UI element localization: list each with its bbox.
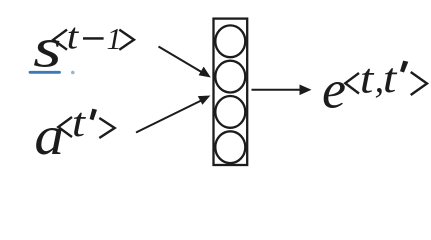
node label s (hidden state) xyxy=(33,15,134,79)
superscript < chevron xyxy=(53,30,67,50)
neuron circle 3 xyxy=(215,96,245,128)
superscript < chevron xyxy=(58,117,72,137)
svg-text:e: e xyxy=(322,60,346,120)
svg-text:a: a xyxy=(34,106,64,167)
blue dot annotation xyxy=(71,71,75,75)
svg-text:t: t xyxy=(383,55,398,101)
superscript minus sign xyxy=(83,37,104,40)
node label a (activation) xyxy=(34,100,114,167)
svg-text:t: t xyxy=(360,55,375,101)
output wire arrow to e xyxy=(252,85,312,96)
wire arrow from a to network box xyxy=(136,96,210,133)
svg-text:t: t xyxy=(72,100,87,145)
svg-text:1: 1 xyxy=(107,22,122,56)
superscript > chevron xyxy=(99,118,114,138)
svg-text:s: s xyxy=(33,17,62,79)
superscript prime xyxy=(400,61,408,73)
neuron circle 4 xyxy=(215,131,245,163)
blue underline annotation under s xyxy=(30,71,60,74)
neuron circle 1 xyxy=(215,25,245,57)
wire arrow from s to network box xyxy=(159,47,211,78)
superscript > chevron xyxy=(119,30,134,50)
superscript < chevron xyxy=(345,73,359,94)
superscript prime xyxy=(90,109,97,121)
network box U1 xyxy=(214,19,248,165)
node label e (attention energy) xyxy=(322,55,427,120)
superscript > chevron xyxy=(411,72,427,95)
svg-text:t: t xyxy=(67,15,80,57)
neuron circle 2 xyxy=(215,61,245,93)
